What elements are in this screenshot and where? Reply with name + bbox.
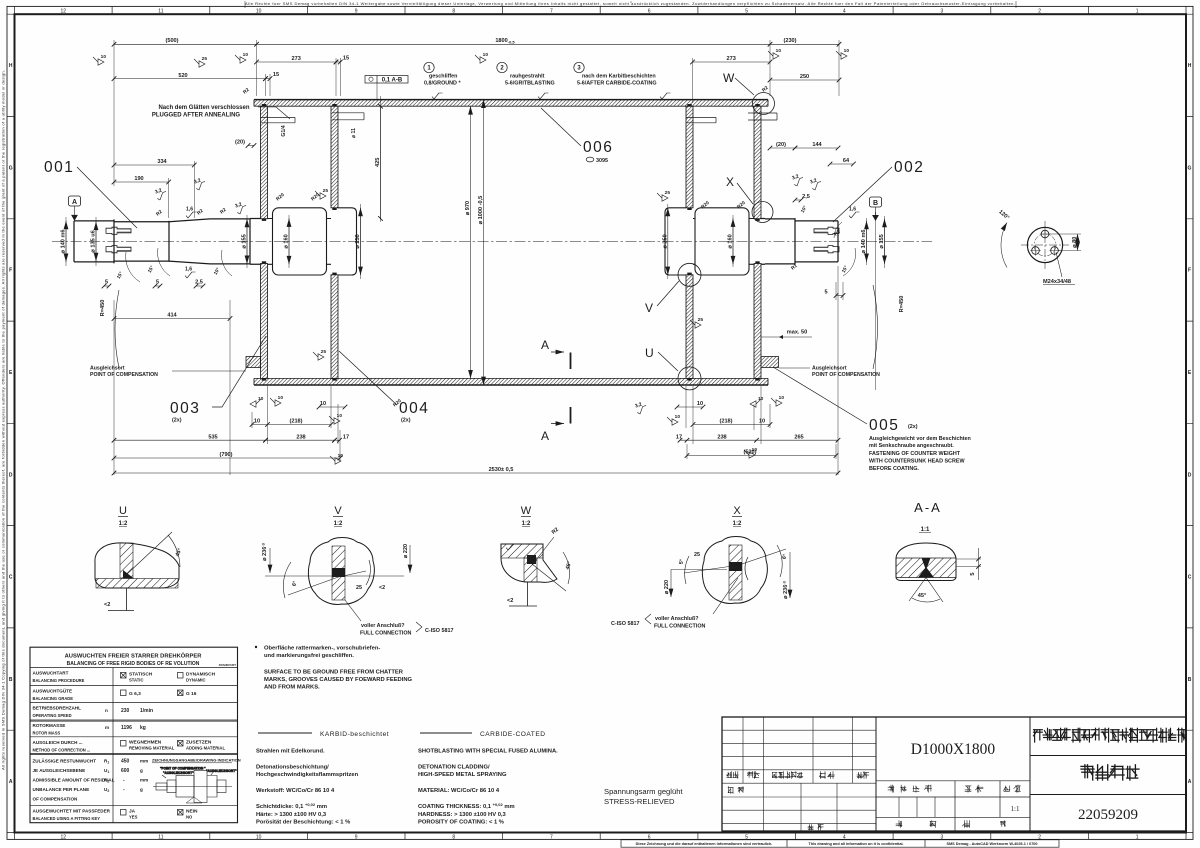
- svg-text:mit Senkschraube angeschraubt.: mit Senkschraube angeschraubt.: [869, 443, 954, 449]
- svg-text:ROTORMASSE: ROTORMASSE: [33, 723, 66, 728]
- svg-text:WITH COUNTERSUNK HEAD SCREW: WITH COUNTERSUNK HEAD SCREW: [869, 459, 965, 465]
- svg-text:Porösität der Beschichtung: <: Porösität der Beschichtung: < 1 %: [256, 820, 350, 826]
- vertical dim d135 u6 left: [95, 222, 97, 261]
- dim 190: [114, 181, 169, 183]
- svg-text:V: V: [334, 505, 342, 517]
- right shaft profile: [761, 218, 838, 265]
- svg-text:AUSWUCHTEN FREIER STARRER DREH: AUSWUCHTEN FREIER STARRER DREHKÖRPER: [65, 653, 203, 660]
- svg-text:0,1 A-B: 0,1 A-B: [382, 78, 403, 84]
- balancing table: [30, 647, 238, 823]
- svg-text:9: 9: [355, 834, 358, 840]
- dim d80: [1049, 234, 1081, 251]
- svg-text:9: 9: [355, 8, 358, 14]
- svg-text:(500): (500): [165, 38, 178, 44]
- svg-text:HARDNESS: > 1300 ±100 HV 0,3: HARDNESS: > 1300 ±100 HV 0,3: [418, 812, 507, 818]
- svg-text:Alle Rechte fuer SMS Demag vor: Alle Rechte fuer SMS Demag vorbehalten D…: [245, 1, 1015, 6]
- svg-text:geschliffen: geschliffen: [429, 74, 457, 80]
- svg-text:(2x): (2x): [401, 418, 411, 424]
- svg-text:FASTENING OF COUNTER WEIGHT: FASTENING OF COUNTER WEIGHT: [869, 451, 961, 457]
- svg-text:(218): (218): [289, 419, 302, 425]
- svg-text:W: W: [521, 505, 532, 517]
- svg-text:414: 414: [167, 313, 177, 319]
- dim 15 left: [336, 61, 340, 63]
- vertical dim d160 left: [288, 219, 290, 265]
- datum flag A: [71, 215, 78, 221]
- svg-text:15: 15: [273, 72, 279, 78]
- dim 5 right: [836, 295, 843, 297]
- svg-text:10: 10: [697, 401, 703, 407]
- svg-text:11: 11: [158, 834, 163, 840]
- svg-text:5: 5: [745, 8, 748, 14]
- svg-text:F: F: [1188, 268, 1191, 274]
- svg-text:B: B: [9, 677, 13, 683]
- svg-text:MATERIAL: WC/Co/Cr 86 10 4: MATERIAL: WC/Co/Cr 86 10 4: [418, 788, 500, 794]
- vertical dim d155 right: [884, 219, 886, 264]
- svg-text:25: 25: [321, 349, 327, 355]
- svg-text:FRANKFURT: FRANKFURT: [219, 663, 237, 667]
- svg-text:kg: kg: [140, 725, 146, 731]
- surface finish symbols: [154, 186, 168, 200]
- svg-text:G 16: G 16: [186, 691, 197, 697]
- svg-text:M24x34/48: M24x34/48: [1043, 279, 1071, 285]
- svg-text:3095: 3095: [596, 158, 608, 164]
- svg-text:25: 25: [694, 552, 700, 558]
- svg-text:FULL CONNECTION: FULL CONNECTION: [360, 631, 412, 637]
- dim 250 right: [770, 79, 839, 81]
- svg-text:10: 10: [844, 48, 850, 54]
- svg-text:Oberfläche rattermarken-, vors: Oberfläche rattermarken-, vorschubriefen…: [264, 646, 380, 652]
- svg-text:BEFORE COATING.: BEFORE COATING.: [869, 466, 919, 472]
- svg-text:15: 15: [343, 56, 349, 62]
- svg-text:R=450: R=450: [899, 296, 905, 313]
- svg-text:17: 17: [676, 434, 682, 440]
- vertical dim d970: [470, 106, 472, 378]
- dim 15 (520 chain): [266, 78, 271, 80]
- svg-text:<2: <2: [104, 602, 110, 608]
- svg-text:B: B: [1188, 677, 1192, 683]
- circled position numbers 1 2 3: [424, 62, 434, 72]
- svg-text:<2: <2: [379, 585, 385, 591]
- svg-text:X: X: [733, 505, 741, 517]
- svg-text:1,6: 1,6: [185, 267, 192, 273]
- svg-text:W: W: [723, 71, 735, 85]
- svg-text:Diese Zeichnung und die darauf: Diese Zeichnung und die darauf enthalten…: [636, 842, 773, 846]
- hub stub right of wall 2: [338, 208, 357, 275]
- dim 334: [114, 164, 194, 166]
- svg-text:Werkstoff: WC/Co/Cr 86 10 4: Werkstoff: WC/Co/Cr 86 10 4: [256, 788, 335, 794]
- svg-text:004: 004: [399, 400, 429, 417]
- left counterweight block: [246, 357, 261, 368]
- svg-text:V: V: [645, 301, 653, 315]
- svg-text:2530± 0,5: 2530± 0,5: [489, 467, 514, 473]
- svg-text:Detonationsbeschichtung/: Detonationsbeschichtung/: [256, 765, 329, 771]
- svg-text:003: 003: [170, 400, 200, 417]
- small angle arcs near shaft steps: [126, 252, 140, 282]
- svg-text:⌀ 80: ⌀ 80: [1072, 237, 1078, 248]
- vertical dim d140 m6 right: [866, 221, 868, 262]
- dim 2530 overall: [114, 472, 838, 474]
- svg-text:1,6: 1,6: [849, 207, 856, 213]
- coating headers: [258, 732, 312, 734]
- roller end disc wall 1 (left): [261, 106, 268, 219]
- sheji row: [728, 787, 733, 794]
- svg-text:(2x): (2x): [172, 418, 182, 424]
- hole wall3 top: [686, 117, 716, 122]
- svg-text:10: 10: [278, 395, 284, 401]
- dimension extension lines: [66, 40, 885, 475]
- dim 10 wall2 bottom: [319, 406, 345, 408]
- svg-text:(20): (20): [776, 142, 786, 148]
- svg-text:PLUGGED AFTER ANNEALING: PLUGGED AFTER ANNEALING: [152, 113, 241, 119]
- dim 17 left: [335, 439, 340, 441]
- svg-text:25: 25: [202, 56, 208, 62]
- svg-text:520: 520: [178, 73, 187, 79]
- svg-text:⌀ 11: ⌀ 11: [351, 128, 357, 138]
- revision grid: [722, 717, 876, 831]
- roller end disc wall 4 (right): [754, 106, 761, 219]
- svg-text:334: 334: [157, 159, 167, 165]
- dim (520) right: [687, 455, 836, 457]
- svg-text:6: 6: [648, 834, 651, 840]
- svg-text:AUSGLEICH DURCH ...: AUSGLEICH DURCH ...: [33, 740, 83, 745]
- svg-text:H: H: [9, 63, 13, 69]
- svg-text:11: 11: [158, 8, 163, 14]
- dim (20) left wall1: [248, 145, 254, 147]
- svg-text:425: 425: [375, 158, 381, 167]
- detail circle U at wall3 bottom: [678, 367, 701, 390]
- svg-text:"AUSGLEICHSORT": "AUSGLEICHSORT": [206, 769, 237, 773]
- svg-text:G: G: [9, 165, 13, 171]
- svg-text:2,5: 2,5: [195, 280, 203, 286]
- svg-text:DYNAMIC: DYNAMIC: [186, 678, 206, 683]
- riqi bottom row: [808, 825, 813, 831]
- surface note bullet: [255, 646, 257, 648]
- dim 2,5 right: [795, 199, 801, 201]
- svg-text:H: H: [1188, 63, 1192, 69]
- right hub diameter 250 between walls: [693, 219, 754, 265]
- svg-text:ADDING MATERIAL: ADDING MATERIAL: [186, 746, 225, 751]
- svg-text:UNBALANCE PER PLANE: UNBALANCE PER PLANE: [33, 787, 90, 792]
- svg-text:AUSWUCHTGÜTE: AUSWUCHTGÜTE: [33, 688, 73, 694]
- svg-text:R=450: R=450: [100, 300, 106, 317]
- svg-text:⌀ 160: ⌀ 160: [284, 234, 290, 248]
- svg-text:STRESS-RELIEVED: STRESS-RELIEVED: [604, 797, 675, 806]
- svg-text:g: g: [140, 768, 143, 773]
- svg-text:005: 005: [869, 417, 899, 434]
- internal wall 3: [686, 106, 693, 208]
- vertical dim d155 left: [246, 219, 248, 264]
- svg-text:4: 4: [843, 8, 846, 14]
- dim 520: [114, 78, 266, 80]
- svg-text:Schichtdicke: 0,1 +0,02 mm: Schichtdicke: 0,1 +0,02 mm: [256, 802, 327, 810]
- svg-text:(20): (20): [235, 140, 245, 146]
- svg-text:NO: NO: [186, 815, 193, 820]
- weld symbols (triangles): [194, 56, 207, 67]
- svg-text:⌀ 155: ⌀ 155: [242, 234, 248, 248]
- svg-text:BALANCING PROCEDURE: BALANCING PROCEDURE: [33, 678, 85, 683]
- datum flag B: [872, 215, 879, 221]
- svg-text:⌀ 135 u6: ⌀ 135 u6: [91, 230, 97, 252]
- svg-text:535: 535: [208, 434, 217, 440]
- svg-text:ADMISSIBLE AMOUNT OF RESIDUAL: ADMISSIBLE AMOUNT OF RESIDUAL: [33, 778, 115, 783]
- svg-text:JE AUSGLEICHSEBENE: JE AUSGLEICHSEBENE: [33, 768, 86, 773]
- svg-text:F: F: [9, 268, 12, 274]
- svg-text:/DRAWING INDICATION: /DRAWING INDICATION: [196, 758, 241, 763]
- right side chain dims: [677, 406, 703, 408]
- internal wall 2: [331, 106, 338, 208]
- dim max.50: [761, 336, 812, 338]
- svg-text:(230): (230): [783, 38, 796, 44]
- svg-text:1,6: 1,6: [186, 207, 193, 213]
- svg-text:C-ISO 5817: C-ISO 5817: [611, 621, 639, 627]
- svg-text:Spannungsarm geglüht: Spannungsarm geglüht: [604, 787, 683, 796]
- svg-text:⌀ 155: ⌀ 155: [879, 234, 885, 248]
- svg-text:AUSWUCHTART: AUSWUCHTART: [33, 671, 69, 676]
- bolt circle end view: [1027, 227, 1062, 262]
- dim 535: [114, 439, 266, 441]
- svg-text:10: 10: [759, 419, 765, 425]
- svg-text:1: 1: [1136, 834, 1139, 840]
- svg-text:10: 10: [776, 48, 782, 54]
- svg-text:(218): (218): [719, 419, 732, 425]
- vertical dim d140 m6 left: [65, 221, 67, 262]
- svg-text:10: 10: [243, 52, 249, 58]
- roller shell top band (carbide coated surface): [254, 100, 768, 107]
- svg-text:230: 230: [121, 708, 130, 714]
- svg-text:Härte: > 1300 ±100 HV 0,3: Härte: > 1300 ±100 HV 0,3: [256, 812, 327, 818]
- dim (20) right: [770, 147, 795, 149]
- svg-text:C-ISO 5817: C-ISO 5817: [425, 628, 453, 634]
- hub stub left of wall 3: [665, 208, 686, 275]
- svg-text:OF COMPENSATION: OF COMPENSATION: [33, 797, 79, 802]
- svg-text:"AUSGLEICHSORT": "AUSGLEICHSORT": [163, 771, 194, 775]
- svg-text:Ausgleichsort: Ausgleichsort: [90, 366, 125, 372]
- svg-text:(790): (790): [219, 452, 232, 458]
- svg-text:8: 8: [452, 834, 455, 840]
- svg-text:273: 273: [727, 56, 736, 62]
- svg-text:144: 144: [812, 142, 822, 148]
- svg-text:190: 190: [134, 176, 143, 182]
- svg-text:B: B: [873, 200, 878, 207]
- svg-text:G1/4: G1/4: [281, 125, 287, 136]
- svg-text:SURFACE TO BE GROUND FREE FROM: SURFACE TO BE GROUND FREE FROM CHATTER: [264, 670, 404, 676]
- svg-text:12: 12: [61, 834, 67, 840]
- bottom confidentiality strip: [621, 840, 1059, 847]
- small dims 5/5/2,5 under left shaft: [104, 285, 109, 287]
- svg-text:3: 3: [941, 834, 944, 840]
- svg-text:U: U: [119, 505, 127, 517]
- detail circle V at wall3 hub: [678, 263, 701, 286]
- svg-text:und markierungsfrei geschliffe: und markierungsfrei geschliffen.: [264, 653, 354, 659]
- svg-text:D1000X1800: D1000X1800: [911, 741, 996, 758]
- mini roller sketch in table: [153, 767, 237, 804]
- svg-text:238: 238: [296, 434, 305, 440]
- svg-text:10: 10: [101, 54, 107, 60]
- svg-text:1:2: 1:2: [334, 521, 343, 527]
- svg-text:5-6/GRITBLASTING: 5-6/GRITBLASTING: [505, 81, 555, 87]
- svg-text:265: 265: [794, 434, 803, 440]
- weld points at wall-hub junctions: [262, 219, 266, 221]
- svg-text:AUSGEWUCHTET MIT PASSFEDER: AUSGEWUCHTET MIT PASSFEDER: [33, 809, 111, 814]
- svg-text:1196: 1196: [121, 725, 132, 731]
- svg-text:A: A: [72, 199, 77, 206]
- right counterweight block: [761, 357, 779, 368]
- svg-text:FULL CONNECTION: FULL CONNECTION: [654, 624, 706, 630]
- svg-text:A: A: [9, 779, 13, 785]
- svg-text:D: D: [9, 472, 13, 478]
- svg-text:POINT OF COMPENSATION: POINT OF COMPENSATION: [90, 372, 158, 378]
- svg-text:⌀ 140 m6: ⌀ 140 m6: [861, 229, 867, 253]
- svg-text:REMOVING MATERIAL: REMOVING MATERIAL: [129, 746, 175, 751]
- svg-text:G: G: [1188, 165, 1192, 171]
- svg-text:600: 600: [121, 768, 130, 774]
- svg-text:1:2: 1:2: [733, 521, 742, 527]
- svg-text:BALANCED USING A FITTING KEY: BALANCED USING A FITTING KEY: [33, 816, 101, 821]
- svg-text:450: 450: [121, 759, 130, 765]
- svg-text:A-A: A-A: [914, 500, 942, 515]
- svg-text:ZEICHNUNGSANGABE: ZEICHNUNGSANGABE: [152, 758, 196, 763]
- svg-text:max. 50: max. 50: [787, 330, 808, 336]
- svg-text:KARBID-beschichtet: KARBID-beschichtet: [320, 731, 389, 738]
- svg-text:YES: YES: [129, 815, 138, 820]
- svg-text:10: 10: [483, 52, 489, 58]
- svg-text:Nach dem Glätten verschlossen: Nach dem Glätten verschlossen: [158, 105, 249, 111]
- svg-text:ZULÄSSIGE RESTUNWUCHT: ZULÄSSIGE RESTUNWUCHT: [33, 758, 97, 764]
- svg-text:273: 273: [292, 56, 301, 62]
- svg-text:C: C: [1188, 575, 1192, 581]
- svg-text:METHOD OF CORRECTION ...: METHOD OF CORRECTION ...: [33, 748, 91, 753]
- svg-text:DETONATION CLADDING/: DETONATION CLADDING/: [418, 765, 490, 771]
- svg-text:OPERATING SPEED: OPERATING SPEED: [33, 713, 72, 718]
- svg-text:10: 10: [320, 401, 326, 407]
- svg-text:Ausgleichgewicht vor dem Besch: Ausgleichgewicht vor dem Beschichten: [869, 436, 971, 442]
- svg-text:n: n: [105, 708, 108, 713]
- svg-text:<2: <2: [507, 598, 513, 604]
- svg-text:U: U: [645, 346, 654, 360]
- svg-text:G 6,3: G 6,3: [129, 691, 141, 697]
- svg-text:⌀ 160: ⌀ 160: [728, 234, 734, 248]
- svg-text:006: 006: [583, 139, 613, 156]
- weld points at wall-shell junctions: [262, 104, 266, 106]
- svg-text:238: 238: [717, 434, 726, 440]
- svg-text:2: 2: [1038, 834, 1041, 840]
- detail circle X at wall4 hub: [752, 202, 773, 223]
- svg-text:3: 3: [941, 8, 944, 14]
- svg-text:002: 002: [894, 159, 924, 176]
- svg-text:voller Anschluß?: voller Anschluß?: [361, 623, 405, 629]
- svg-text:X: X: [726, 175, 734, 189]
- tuyangbiaoji / zhongliang / bili labels: [888, 785, 894, 792]
- svg-text:voller Anschluß?: voller Anschluß?: [655, 616, 699, 622]
- svg-text:(2x): (2x): [908, 424, 918, 430]
- svg-text:m: m: [105, 725, 109, 730]
- svg-text:⌀ 140 m6: ⌀ 140 m6: [61, 229, 67, 253]
- svg-text:SHOTBLASTING WITH SPECIAL FUSE: SHOTBLASTING WITH SPECIAL FUSED ALUMINA.: [418, 749, 558, 755]
- svg-text:D: D: [1188, 472, 1192, 478]
- svg-text:5-6/AFTER CARBIDE-COATING: 5-6/AFTER CARBIDE-COATING: [577, 81, 657, 87]
- dim 273 right: [693, 61, 771, 63]
- svg-text:5°: 5°: [679, 559, 686, 565]
- vertical dim d250 left: [360, 208, 362, 275]
- svg-text:A: A: [541, 338, 549, 352]
- svg-text:2,5: 2,5: [802, 194, 810, 200]
- svg-text:64: 64: [843, 158, 850, 164]
- svg-text:A: A: [1188, 779, 1192, 785]
- svg-text:1:1: 1:1: [921, 527, 930, 533]
- svg-text:25: 25: [323, 188, 329, 194]
- svg-text:1:2: 1:2: [522, 521, 531, 527]
- svg-text:10: 10: [258, 396, 264, 402]
- svg-text:C: C: [9, 575, 13, 581]
- vertical dim d1000: [483, 100, 485, 385]
- svg-text:10: 10: [779, 395, 785, 401]
- hole wall4 top: [748, 113, 777, 120]
- svg-text:10: 10: [337, 413, 343, 419]
- svg-text:nach dem Karbitbeschichten: nach dem Karbitbeschichten: [582, 74, 656, 80]
- svg-text:⌀ 220: ⌀ 220: [664, 580, 670, 594]
- svg-text:AND FROM MARKS.: AND FROM MARKS.: [264, 685, 320, 691]
- G1/4 plug hole wall1 top: [261, 117, 295, 122]
- hole d11 wall2 top: [332, 113, 364, 120]
- svg-text:1:1: 1:1: [1011, 805, 1020, 813]
- svg-text:8: 8: [452, 8, 455, 14]
- svg-text:POROSITY OF COATING: < 1 %: POROSITY OF COATING: < 1 %: [418, 820, 504, 826]
- dim 144 right: [795, 147, 838, 149]
- vertical dim 425: [380, 106, 382, 218]
- bolt holes M24: [1041, 230, 1049, 238]
- svg-text:mm: mm: [140, 778, 148, 783]
- dim 414: [114, 318, 230, 320]
- title block frame: [722, 717, 1186, 831]
- dim (790): [114, 457, 340, 459]
- svg-text:STATIC: STATIC: [129, 678, 144, 683]
- svg-text:2: 2: [1038, 8, 1041, 14]
- svg-text:10: 10: [758, 396, 764, 402]
- dim 64 right: [830, 163, 853, 165]
- svg-text:rauhgestrahlt: rauhgestrahlt: [510, 74, 545, 80]
- left shaft plug bolts: [106, 227, 131, 234]
- svg-text:7: 7: [550, 8, 553, 14]
- roller shell bottom band: [254, 378, 768, 385]
- svg-text:0,8/GROUND *: 0,8/GROUND *: [424, 81, 461, 87]
- svg-text:1:2: 1:2: [119, 521, 128, 527]
- svg-text:12: 12: [61, 8, 67, 14]
- revision header row: biaoji chushu gaigengwenjianming qianzi riqi: [727, 772, 732, 778]
- svg-text:Ausgleichsort: Ausgleichsort: [812, 366, 847, 372]
- svg-text:BETRIEBSDREHZAHL: BETRIEBSDREHZAHL: [33, 706, 82, 711]
- svg-text:This drawing and all informati: This drawing and all information on it i…: [808, 842, 903, 846]
- svg-text:22059209: 22059209: [1078, 807, 1138, 823]
- svg-text:10: 10: [256, 8, 262, 14]
- svg-text:001: 001: [44, 159, 74, 176]
- svg-text:25: 25: [356, 585, 362, 591]
- svg-text:25: 25: [698, 317, 704, 323]
- svg-text:5: 5: [824, 290, 827, 296]
- svg-text:HIGH-SPEED METAL SPRAYING: HIGH-SPEED METAL SPRAYING: [418, 772, 507, 778]
- svg-text:MARKS, GROOVES CAUSED BY FOEWA: MARKS, GROOVES CAUSED BY FOEWARD FEEDING: [264, 677, 413, 683]
- svg-text:BALANCING OF FREE RIGID BODIES: BALANCING OF FREE RIGID BODIES OF RE VOL…: [67, 661, 200, 667]
- right shaft plug bolts: [814, 227, 839, 234]
- company name (chinese): [1034, 730, 1043, 742]
- svg-text:25: 25: [665, 190, 671, 196]
- svg-text:ROTOR MASS: ROTOR MASS: [33, 731, 61, 736]
- svg-text:1/min: 1/min: [140, 708, 153, 714]
- svg-text:5: 5: [745, 834, 748, 840]
- svg-text:5: 5: [156, 280, 159, 286]
- svg-text:BALANCING GRADE: BALANCING GRADE: [33, 696, 74, 701]
- dim 238 left: [266, 439, 335, 441]
- svg-text:10: 10: [338, 453, 344, 459]
